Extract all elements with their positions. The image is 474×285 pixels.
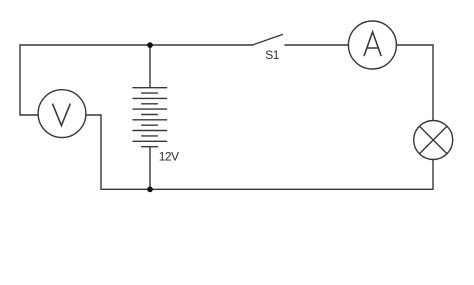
wire left-bottom vertical <box>100 115 102 189</box>
wire right vertical lower <box>432 160 434 190</box>
node bottom junction <box>147 187 153 193</box>
wire top-left horizontal <box>20 44 252 46</box>
ammeter U1 <box>348 21 396 69</box>
lamp L1 <box>414 121 453 160</box>
node top junction <box>147 42 153 48</box>
wire bottom horizontal <box>101 188 433 190</box>
wire ammeter to right corner <box>396 44 433 46</box>
wire battery negative lead <box>149 147 151 190</box>
wire battery positive lead <box>149 45 151 88</box>
wire to voltmeter <box>20 114 38 116</box>
battery B1 <box>133 88 167 147</box>
wire voltmeter to corner <box>86 114 101 116</box>
voltmeter U2 <box>38 90 86 138</box>
svg-text:S1: S1 <box>265 48 280 62</box>
wire left vertical <box>19 45 21 115</box>
switch S1 <box>252 35 282 46</box>
wire right vertical upper <box>432 45 434 121</box>
wire switch to ammeter <box>285 44 349 46</box>
svg-text:12V: 12V <box>159 150 179 164</box>
